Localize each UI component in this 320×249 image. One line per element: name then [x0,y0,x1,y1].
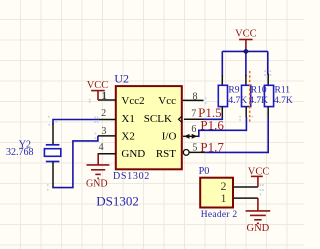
resistor R9 [218,85,227,106]
power port VCC (top) [239,40,253,49]
svg-text:1: 1 [221,191,227,205]
svg-text:6: 6 [191,124,196,135]
wire pin5 to R11 [205,117,268,152]
power port VCC (left, pin1) [91,91,105,100]
svg-text:Vcc: Vcc [158,95,176,107]
resistor R9 bottom pin [221,107,223,117]
svg-text:4.7K: 4.7K [249,96,268,106]
rail drop to R11 [267,51,269,74]
svg-text:P0: P0 [199,166,210,177]
crystal Y2 top pin [52,124,54,145]
pin 5 stub [189,151,205,153]
rail drop to R10 [245,51,247,76]
svg-text:4.7K: 4.7K [228,96,247,106]
svg-text:VCC: VCC [235,28,257,39]
svg-text:GND: GND [247,223,270,234]
pin 2 stub [99,119,116,121]
wire R9 to P1.5 [221,117,223,120]
rail drop to R9 [221,51,223,76]
wire pin6 to R10 [198,117,247,136]
pin 8 stub [183,99,204,101]
resistor R10 bottom pin [245,107,247,118]
svg-text:4.7K: 4.7K [274,96,293,106]
pin 5 bubble [183,150,189,156]
pin 6 bidirectional arrows [183,134,199,139]
svg-text:GND: GND [121,148,145,160]
wire crystal to X2 [53,136,98,188]
pin 3 stub [98,135,116,137]
svg-text:1: 1 [102,91,107,102]
header pin 1 stub [234,197,258,199]
ground GND (chip pin4) [87,154,110,179]
svg-text:VCC: VCC [248,166,270,177]
svg-text:3: 3 [101,126,106,137]
svg-text:VCC: VCC [87,80,109,91]
svg-text:Header 2: Header 2 [201,210,238,220]
resistor R11 [264,85,273,106]
power port VCC (header) [251,176,263,187]
resistor R11 top pin [267,74,269,86]
svg-text:R11: R11 [275,86,291,96]
svg-text:X1: X1 [121,113,134,125]
junction dot [243,48,249,54]
svg-text:I/O: I/O [162,131,177,143]
VCC rail top [222,50,267,52]
svg-text:4: 4 [99,142,104,153]
svg-text:32.768: 32.768 [6,147,34,158]
resistor R11 bottom pin [267,107,269,118]
pin 7 clock chevron [179,116,183,123]
wire pin2 to crystal [53,120,99,125]
svg-text:R9: R9 [228,86,239,96]
svg-text:7: 7 [191,109,196,120]
svg-text:DS1302: DS1302 [113,171,150,182]
svg-text:X2: X2 [121,131,134,143]
resistor R9 top pin [221,75,223,86]
no-ERC grid dot markers [47,70,271,195]
wire pin7 to R9 [204,118,223,120]
IC U2 body (DS1302) [116,86,182,169]
pin 4 stub [98,153,116,155]
svg-text:RST: RST [156,148,176,160]
svg-text:R10: R10 [251,86,267,96]
ground GND (header) [246,198,271,223]
svg-text:SCLK: SCLK [144,113,172,125]
orange selection dash line [249,71,251,124]
svg-text:2: 2 [101,108,106,119]
svg-text:Vcc2: Vcc2 [121,95,144,107]
resistor R10 [242,85,251,106]
svg-text:U2: U2 [114,72,129,86]
header pin 2 stub [234,186,258,188]
crystal Y2 [44,145,60,162]
svg-text:GND: GND [86,178,108,189]
pin 1 stub [98,99,116,101]
crystal Y2 bottom pin [52,162,54,188]
resistor R10 top pin [245,75,247,86]
svg-text:8: 8 [193,92,198,103]
svg-text:5: 5 [192,143,197,154]
svg-text:DS1302: DS1302 [96,194,139,209]
pin 7 stub [184,118,204,120]
header P0 body [200,178,233,208]
